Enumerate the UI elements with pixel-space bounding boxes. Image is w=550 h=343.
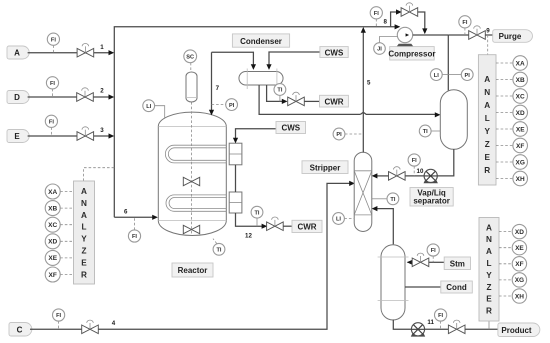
wire recycle header top run and feed header: [114, 27, 396, 218]
pump 11: [411, 323, 425, 337]
wire condensate line: [405, 286, 441, 288]
svg-text:FI: FI: [56, 313, 61, 319]
PI separator tap: [448, 74, 461, 76]
FI stream 4: [58, 321, 60, 329]
reactor coil upper: [165, 145, 226, 163]
wire into stripper: [376, 175, 388, 177]
wire valve to Product box: [465, 328, 498, 330]
svg-text:A: A: [484, 75, 490, 84]
svg-text:XF: XF: [516, 143, 524, 150]
svg-text:FI: FI: [438, 313, 443, 319]
svg-text:XH: XH: [516, 176, 525, 183]
JI compressor: [380, 37, 398, 43]
svg-text:C: C: [17, 325, 23, 334]
svg-text:PI: PI: [229, 103, 235, 109]
dashed tap to right analyzer: [487, 35, 489, 55]
pump 10: [424, 169, 438, 183]
svg-text:R: R: [81, 270, 87, 279]
LI reactor: [143, 100, 155, 112]
svg-text:PI: PI: [465, 73, 471, 79]
svg-text:Y: Y: [81, 235, 87, 244]
wire pump 11 to valve: [424, 328, 448, 330]
wire CWS to reactor coils: [236, 129, 277, 139]
svg-text:XE: XE: [515, 245, 524, 252]
TI reactor bottom tap: [213, 239, 217, 244]
wire stream 4 bottom run: [30, 328, 82, 330]
svg-text:2: 2: [100, 88, 104, 95]
stripper packing section: [354, 171, 372, 215]
valve product: [448, 320, 465, 334]
XF circle bottom: [499, 263, 512, 265]
svg-text:N: N: [484, 88, 490, 97]
TI reactor: [213, 243, 225, 255]
CWS box reactor: [276, 122, 306, 134]
wire to separator: [447, 35, 449, 91]
cooling nozzle block lower: [229, 192, 242, 213]
svg-text:1: 1: [100, 44, 104, 51]
svg-text:L: L: [81, 223, 86, 232]
reactor vessel R1: [158, 112, 226, 235]
svg-text:XA: XA: [516, 60, 525, 67]
svg-text:Stm: Stm: [450, 260, 465, 269]
LI separator tap: [442, 74, 448, 76]
wire stream D: [28, 96, 110, 98]
svg-text:FI: FI: [412, 158, 417, 164]
separator vessel V1: [440, 90, 467, 150]
reboiler tube ticks: [378, 257, 409, 301]
svg-text:LI: LI: [336, 217, 341, 223]
svg-text:R: R: [486, 307, 492, 316]
XH circle right: [496, 178, 513, 180]
stripper column T1: [354, 152, 372, 231]
XA circle right: [496, 62, 513, 64]
wire condenser to separator: [259, 85, 360, 114]
wire purge line: [448, 34, 468, 36]
XG circle right: [496, 161, 513, 163]
wire stream A: [28, 52, 110, 54]
svg-text:3: 3: [100, 127, 104, 134]
wire valve to Stm box: [429, 261, 444, 263]
CWR box condenser: [320, 95, 349, 107]
valve condenser CWR: [288, 92, 305, 106]
svg-text:R: R: [484, 166, 490, 175]
svg-text:A: A: [486, 223, 492, 232]
svg-text:CWR: CWR: [324, 98, 343, 107]
valve 3: [77, 127, 94, 141]
LI stripper: [344, 218, 354, 220]
wire stream E: [28, 135, 110, 137]
Vap/Liq separator label box: [410, 188, 453, 207]
wire separator liquid to pump: [437, 149, 454, 176]
wire bypass return: [418, 12, 425, 29]
compressor K1: [397, 44, 414, 47]
svg-text:8: 8: [383, 19, 387, 26]
SC dashed stem: [190, 63, 192, 73]
svg-text:XG: XG: [515, 277, 524, 284]
XC circle right: [496, 95, 513, 97]
reactor center dashed line: [191, 102, 193, 234]
XF circle right: [496, 145, 513, 147]
XE circle bottom: [499, 247, 512, 249]
svg-text:9: 9: [486, 28, 490, 35]
Stm box: [444, 257, 470, 270]
CWS box condenser: [320, 47, 348, 58]
XD circle left: [60, 240, 73, 242]
svg-text:SC: SC: [186, 55, 194, 61]
XB circle right: [496, 79, 513, 81]
feed box E: [7, 130, 29, 143]
XC circle left: [60, 224, 73, 226]
Purge box: [493, 30, 533, 43]
svg-text:XB: XB: [516, 77, 525, 84]
svg-text:Reactor: Reactor: [178, 266, 208, 275]
XG circle bottom: [499, 279, 512, 281]
svg-text:XF: XF: [515, 261, 523, 268]
svg-text:TI: TI: [390, 197, 395, 203]
FI stream 1: [52, 45, 54, 52]
svg-text:Compressor: Compressor: [388, 49, 435, 58]
wire stream 12 to CWR: [236, 213, 263, 226]
svg-text:Stripper: Stripper: [310, 164, 341, 173]
wire condenser feed: [212, 52, 254, 65]
svg-text:Cond: Cond: [446, 283, 467, 292]
TI stripper: [372, 198, 387, 200]
FI steam: [432, 256, 434, 262]
wire compressor discharge: [413, 34, 449, 36]
svg-text:A: A: [484, 101, 490, 110]
Condenser label box: [232, 34, 289, 47]
svg-text:A: A: [486, 247, 492, 256]
svg-text:E: E: [484, 153, 490, 162]
bottom right analyzer box: [479, 218, 499, 322]
XF circle left: [60, 274, 73, 276]
svg-text:XF: XF: [49, 272, 57, 279]
wire steam line: [408, 261, 413, 263]
svg-text:FI: FI: [462, 20, 467, 26]
wire valve to purge box: [485, 34, 492, 36]
wire reboiler vapor to stripper: [376, 209, 393, 245]
PI reactor tap: [212, 104, 226, 106]
CWR box reactor: [292, 220, 322, 232]
svg-text:XC: XC: [516, 93, 525, 100]
TI condenser: [279, 95, 281, 101]
PI reactor: [226, 99, 238, 111]
wire to CWR box: [304, 100, 319, 102]
svg-text:10: 10: [417, 168, 424, 175]
svg-text:XC: XC: [48, 222, 57, 229]
svg-text:4: 4: [112, 320, 116, 327]
wire stream 5 stripper overhead: [362, 30, 364, 153]
svg-text:separator: separator: [413, 197, 449, 206]
svg-text:Z: Z: [485, 140, 490, 149]
svg-text:FI: FI: [374, 11, 379, 17]
FI stream 6: [134, 217, 136, 230]
FI stream 3: [50, 127, 52, 136]
svg-text:XH: XH: [515, 293, 524, 300]
svg-text:A: A: [81, 187, 87, 196]
svg-text:N: N: [486, 235, 492, 244]
Compressor label box: [390, 47, 435, 60]
svg-text:XG: XG: [515, 159, 524, 166]
svg-text:XD: XD: [515, 229, 524, 236]
TI separator: [419, 125, 431, 137]
svg-text:Y: Y: [486, 271, 492, 280]
arrow stream 6 into reactor: [152, 215, 158, 220]
PI separator: [461, 69, 473, 81]
feed box A: [7, 46, 29, 59]
svg-text:L: L: [486, 259, 491, 268]
valve 1: [77, 44, 94, 58]
svg-text:CWR: CWR: [297, 223, 316, 232]
svg-text:FI: FI: [49, 120, 54, 126]
analyzer 2 tap: [488, 321, 490, 329]
TI separator tap: [431, 130, 440, 132]
condenser E1: [239, 72, 283, 86]
svg-text:N: N: [81, 199, 87, 208]
XE circle left: [60, 257, 73, 259]
XD circle bottom: [499, 231, 512, 233]
cooling nozzle block upper: [229, 143, 242, 165]
feed box C: [9, 323, 32, 337]
compressor discharge arrow: [406, 33, 410, 36]
left analyzer box: [74, 181, 95, 284]
svg-text:11: 11: [427, 319, 434, 326]
svg-text:LI: LI: [146, 104, 151, 110]
svg-text:5: 5: [367, 80, 371, 87]
PI stream 5: [345, 133, 363, 135]
SC capsule gauge: [186, 72, 197, 102]
wire compressor bypass: [391, 12, 397, 27]
reboiler vessel E2: [381, 245, 405, 320]
svg-text:LI: LI: [434, 73, 439, 79]
svg-text:E: E: [486, 295, 492, 304]
svg-text:XD: XD: [48, 239, 57, 246]
svg-text:Product: Product: [501, 326, 532, 335]
svg-text:A: A: [14, 49, 20, 58]
arrow stream 2 into header: [109, 94, 115, 99]
arrow into compressor inlet: [395, 24, 401, 29]
wire between coil blocks: [235, 165, 237, 192]
svg-text:JI: JI: [377, 47, 382, 53]
agitator lower: [183, 225, 199, 233]
right analyzer box top: [478, 55, 496, 185]
svg-text:FI: FI: [431, 248, 436, 254]
svg-text:FI: FI: [51, 37, 56, 43]
valve 2: [77, 88, 94, 102]
svg-text:Z: Z: [486, 283, 491, 292]
svg-text:XE: XE: [48, 255, 57, 262]
svg-text:Z: Z: [81, 247, 86, 256]
XD circle right: [496, 112, 513, 114]
svg-text:A: A: [81, 211, 87, 220]
svg-text:D: D: [14, 93, 20, 102]
svg-text:7: 7: [216, 85, 220, 92]
svg-text:FI: FI: [132, 234, 137, 240]
svg-text:E: E: [14, 132, 20, 141]
TI stream 12: [256, 218, 258, 226]
svg-text:Purge: Purge: [499, 32, 522, 41]
wire pump to valve 10: [405, 175, 424, 177]
bypass valve: [401, 3, 418, 16]
valve 12: [267, 217, 284, 231]
dashed sample line left analyzer to header: [84, 168, 115, 181]
wire reboiler bottoms to pump 11: [393, 320, 411, 330]
FI stream 2: [52, 89, 54, 97]
FI stream 10: [413, 166, 415, 176]
arrow stream 1 into header: [109, 50, 115, 55]
Reactor label box: [172, 263, 213, 277]
svg-text:L: L: [485, 114, 490, 123]
agitator upper: [183, 177, 199, 185]
svg-text:6: 6: [124, 209, 128, 216]
svg-text:Y: Y: [484, 127, 490, 136]
Stripper label box: [302, 161, 348, 174]
svg-text:TI: TI: [217, 248, 222, 254]
Product box: [498, 323, 540, 337]
XH circle bottom: [499, 295, 512, 297]
XA circle left: [60, 191, 73, 193]
svg-text:TI: TI: [423, 129, 428, 135]
LI separator: [430, 69, 442, 81]
LI reactor tap line: [155, 106, 165, 119]
Cond box: [441, 281, 473, 293]
svg-text:Condenser: Condenser: [240, 37, 282, 46]
FI stream 8: [375, 19, 377, 27]
svg-text:12: 12: [245, 233, 252, 240]
arrow stream 3 into header: [109, 133, 115, 138]
svg-text:CWS: CWS: [281, 124, 300, 133]
svg-text:E: E: [81, 258, 87, 267]
valve steam: [412, 253, 429, 266]
wire valve to CWR box: [283, 225, 292, 227]
svg-text:XB: XB: [48, 205, 57, 212]
svg-text:PI: PI: [336, 132, 342, 138]
wire CWS to condenser: [269, 52, 320, 66]
valve 10: [389, 167, 406, 181]
wire stream 4 riser to stripper: [98, 183, 350, 329]
FI product: [440, 321, 442, 329]
svg-text:FI: FI: [50, 81, 55, 87]
SC instrument: [184, 50, 197, 63]
wire condenser CWR out: [267, 85, 282, 101]
XE circle right: [496, 128, 513, 130]
svg-text:XA: XA: [48, 189, 57, 196]
valve 4: [82, 320, 99, 334]
svg-text:CWS: CWS: [325, 48, 344, 57]
svg-text:XD: XD: [516, 110, 525, 117]
svg-text:TI: TI: [277, 88, 282, 94]
svg-text:TI: TI: [255, 210, 260, 216]
svg-text:XE: XE: [516, 126, 525, 133]
feed box D: [7, 91, 29, 104]
wire line 7 down into reactor: [211, 52, 213, 110]
valve 9: [469, 26, 486, 40]
XB circle left: [60, 207, 73, 209]
FI purge: [464, 28, 466, 35]
condenser tube ticks: [247, 69, 277, 90]
reactor shoulder chords: [158, 127, 226, 221]
reactor coil lower: [166, 195, 226, 211]
line hop at stream 5 crossing: [360, 112, 435, 114]
wire line 6 into reactor: [114, 216, 153, 218]
